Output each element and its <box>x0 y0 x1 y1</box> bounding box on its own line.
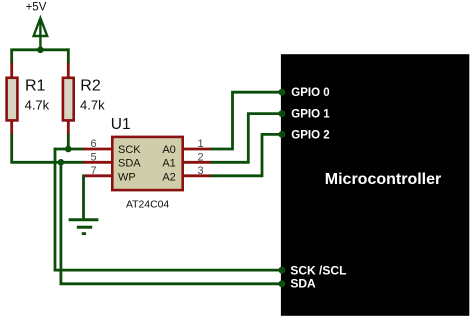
node GPIO 2 terminal <box>279 131 286 138</box>
wire WP pin to ground <box>82 175 85 221</box>
svg-text:R1: R1 <box>25 78 46 95</box>
svg-text:A0: A0 <box>162 144 175 156</box>
svg-text:A1: A1 <box>162 158 175 170</box>
svg-text:AT24C04: AT24C04 <box>126 200 169 211</box>
chip U1 body <box>112 137 182 190</box>
junction node SDA <box>58 159 65 166</box>
svg-text:WP: WP <box>118 172 136 184</box>
svg-text:2: 2 <box>197 151 203 163</box>
chip U1 pin 5 lead <box>83 161 112 164</box>
svg-text:SDA: SDA <box>118 158 141 170</box>
wire SCL vertical down <box>54 148 57 272</box>
node SCK /SCL terminal <box>279 267 286 274</box>
svg-text:+5V: +5V <box>26 2 47 14</box>
svg-text:6: 6 <box>90 138 96 150</box>
svg-text:3: 3 <box>197 165 203 177</box>
wire SCK row horizontal to pin 6 <box>54 148 84 151</box>
svg-text:SCK /SCL: SCK /SCL <box>290 263 346 277</box>
svg-text:SCK: SCK <box>118 144 141 156</box>
junction node R2/SCK <box>65 146 72 153</box>
resistor R1 body <box>7 78 18 121</box>
ground symbol <box>69 220 99 234</box>
wire SDA bottom horizontal to microcontroller <box>60 282 282 285</box>
wire R1 top drop <box>10 49 13 65</box>
wire SCL bottom horizontal to microcontroller <box>54 269 282 272</box>
power +5V arrow symbol <box>34 18 48 50</box>
svg-text:GPIO 1: GPIO 1 <box>291 109 330 121</box>
svg-text:1: 1 <box>197 138 203 150</box>
node GPIO 0 terminal <box>279 89 286 96</box>
chip U1 pin 1 lead <box>183 148 212 151</box>
resistor R2 bottom lead <box>67 121 70 135</box>
svg-text:GPIO 0: GPIO 0 <box>291 87 329 99</box>
chip U1 pin 7 lead <box>83 174 112 177</box>
microcontroller block <box>281 54 469 316</box>
resistor R2 body <box>63 78 74 121</box>
resistor R1 bottom lead <box>10 121 13 135</box>
svg-text:Microcontroller: Microcontroller <box>325 171 441 188</box>
svg-text:U1: U1 <box>111 116 131 133</box>
resistor R1 top lead <box>10 63 13 78</box>
node GPIO 1 terminal <box>279 110 286 117</box>
svg-text:SDA: SDA <box>290 277 316 291</box>
wire pin 3 to GPIO 2 <box>211 134 283 175</box>
chip U1 pin 2 lead <box>183 161 212 164</box>
svg-text:R2: R2 <box>80 78 101 95</box>
wire R1 bottom to SDA row <box>12 134 84 163</box>
resistor R2 top lead <box>67 63 70 78</box>
wire top horizontal from R1 to R2 <box>10 48 69 51</box>
chip U1 pin 6 lead <box>83 148 112 151</box>
wire SDA vertical down <box>60 161 63 285</box>
wire pin 1 to GPIO 0 <box>211 92 283 149</box>
svg-text:7: 7 <box>90 165 96 177</box>
chip U1 pin 3 lead <box>183 174 212 177</box>
svg-text:4.7k: 4.7k <box>25 98 50 113</box>
junction node at +5V stem <box>37 47 44 54</box>
wire R2 top drop <box>67 48 70 64</box>
wire R2 bottom to SCK row <box>67 134 70 149</box>
svg-text:GPIO 2: GPIO 2 <box>291 129 329 141</box>
svg-text:A2: A2 <box>162 172 175 184</box>
node SDA terminal <box>279 280 286 287</box>
svg-text:5: 5 <box>90 151 96 163</box>
svg-text:4.7k: 4.7k <box>80 98 105 113</box>
wire pin 2 to GPIO 1 <box>211 114 283 163</box>
